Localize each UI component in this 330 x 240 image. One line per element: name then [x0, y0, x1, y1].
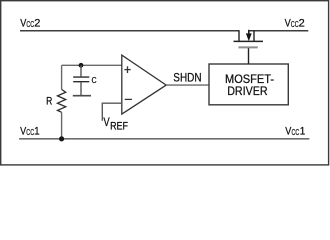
svg-text:DRIVER: DRIVER — [227, 84, 268, 98]
svg-text:V: V — [103, 115, 109, 129]
svg-text:CC: CC — [26, 128, 34, 137]
svg-text:CC: CC — [26, 20, 34, 29]
svg-text:R: R — [46, 95, 52, 107]
svg-text:1: 1 — [300, 126, 306, 138]
svg-text:REF: REF — [110, 120, 128, 132]
svg-text:SHDN: SHDN — [173, 71, 201, 85]
svg-text:CC: CC — [292, 128, 300, 137]
svg-text:C: C — [92, 75, 97, 85]
svg-text:2: 2 — [34, 17, 40, 29]
svg-text:1: 1 — [34, 126, 40, 138]
svg-text:2: 2 — [299, 17, 305, 29]
svg-text:CC: CC — [291, 20, 299, 29]
